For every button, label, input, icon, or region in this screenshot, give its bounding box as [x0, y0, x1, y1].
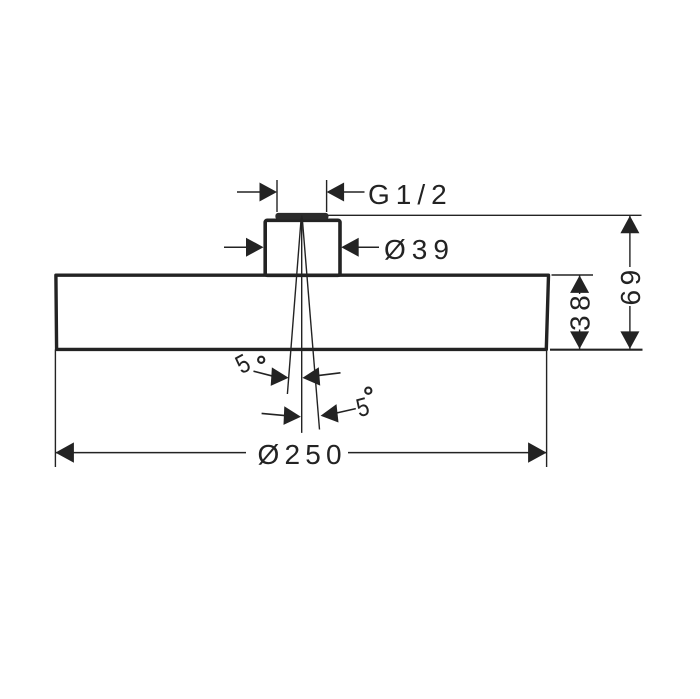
svg-text:38: 38 — [565, 291, 596, 331]
dimension Ø250: left line segment — [55, 452, 246, 454]
angle dim 5° right: right-pointing arrowhead at axis — [284, 406, 301, 425]
dimension Ø39: right arrow tail — [358, 246, 380, 248]
dimension 38: dimension line — [579, 275, 581, 349]
dimension 38: white gap for label — [567, 294, 592, 330]
dimension G1/2: left arrowhead — [260, 183, 278, 202]
dimension Ø250: right line segment — [348, 452, 547, 454]
dimension 69: white gap for label — [617, 267, 643, 306]
shower head disc body (side view) — [56, 275, 549, 349]
dimension 69: dimension line — [629, 216, 631, 349]
right spray line (5° tilt) — [302, 218, 319, 430]
dimension Ø250: left arrowhead — [55, 442, 74, 462]
dimension 69: top extension line — [328, 214, 642, 216]
svg-text:Ø250: Ø250 — [258, 439, 347, 470]
angle dim 5° left: leader line — [254, 371, 274, 376]
dimension 69: top arrowhead — [620, 216, 639, 234]
angle dim 5° left: left-pointing arrowhead at axis — [302, 367, 320, 385]
svg-text:5: 5 — [353, 392, 372, 423]
dimension 38: top extension line — [552, 274, 594, 276]
angle dim 5° left: degree symbol — [258, 357, 264, 363]
dimension 38: bottom arrowhead — [570, 331, 589, 349]
dimension G1/2: right arrow tail — [343, 191, 365, 193]
dimension G1/2: right arrowhead — [327, 183, 345, 202]
dimension Ø250: left extension line — [54, 350, 56, 468]
angle dim 5° left: tail line to the right — [318, 373, 341, 376]
dimension Ø250: right extension line — [546, 350, 548, 468]
dimension G1/2: extension line right — [326, 180, 328, 212]
svg-text:Ø39: Ø39 — [384, 234, 455, 265]
left spray line (5° tilt) — [287, 218, 301, 395]
dimension 38: top arrowhead — [570, 275, 589, 293]
angle dim 5° right: left tail line — [262, 413, 285, 415]
dimension G1/2: extension line left — [276, 180, 278, 212]
angle dim 5° right: degree symbol — [365, 388, 371, 394]
dimension Ø250: right arrowhead — [528, 442, 547, 462]
dimension G1/2: left arrow tail — [237, 191, 261, 193]
svg-text:69: 69 — [615, 265, 646, 305]
connector cap (G1/2 thread collar) — [275, 213, 328, 220]
svg-text:5: 5 — [231, 349, 256, 380]
angle dim 5° right: leader line to label — [337, 409, 356, 413]
center axis line — [301, 216, 303, 433]
angle dim 5° right: left-pointing arrowhead at right spray line — [321, 404, 339, 422]
dimension Ø39: left arrow tail — [224, 246, 247, 248]
angle dim 5° left: right-pointing arrowhead at left spray line — [271, 367, 289, 386]
dimension Ø39: left arrowhead — [246, 238, 264, 257]
dimension 69: bottom extension line (shared with 38) — [550, 349, 643, 351]
dimension Ø39: right arrowhead — [341, 238, 359, 257]
svg-text:G1/2: G1/2 — [368, 179, 453, 210]
dimension 69: bottom arrowhead — [620, 331, 639, 349]
connector body Ø39 — [265, 220, 340, 275]
